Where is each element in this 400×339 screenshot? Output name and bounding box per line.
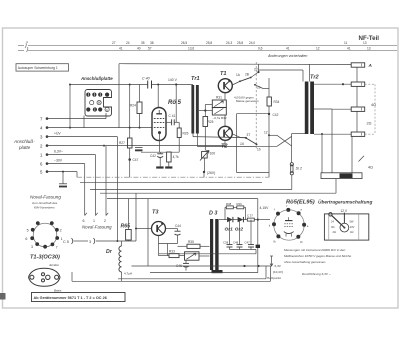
svg-text:Heizpunkt: Heizpunkt: [267, 276, 281, 280]
label box Autosuper: [16, 64, 69, 71]
wire top rail 1: [18, 44, 24, 46]
svg-text:C42: C42: [150, 154, 156, 158]
svg-text:Änderungen vorbehalten: Änderungen vorbehalten: [267, 54, 307, 58]
svg-text:38: 38: [150, 41, 154, 45]
svg-text:C 41: C 41: [169, 114, 176, 118]
svg-text:+ÜV: +ÜV: [54, 132, 61, 136]
svg-text:−30V: −30V: [54, 159, 63, 163]
wire tube cathode: [159, 141, 161, 153]
svg-text:3: 3: [31, 245, 33, 249]
svg-text:C38: C38: [223, 241, 229, 245]
svg-text:3T: 3T: [247, 133, 251, 137]
svg-text:R35: R35: [188, 240, 194, 244]
svg-text:T1-3(OC30): T1-3(OC30): [30, 255, 60, 261]
pin row bottom: [86, 107, 90, 111]
svg-text:12: 12: [316, 47, 320, 51]
svg-text:6: 6: [83, 219, 85, 223]
wire cap drops: [229, 220, 231, 245]
terminal box A: [351, 63, 365, 67]
svg-text:6,3V: 6,3V: [275, 264, 282, 268]
svg-text:C 5: C 5: [63, 240, 69, 244]
svg-text:2Ω: 2Ω: [333, 230, 336, 234]
svg-text:Rö 5: Rö 5: [168, 100, 182, 106]
capacitor C49: [256, 245, 260, 248]
wire top rail 2: [18, 50, 24, 52]
wire T3 collector loop: [158, 236, 160, 244]
svg-text:2B: 2B: [245, 72, 249, 76]
svg-text:2: 2: [60, 228, 62, 232]
wire x148: [147, 199, 149, 266]
svg-text:25,8: 25,8: [206, 41, 212, 45]
svg-text:12 V: 12 V: [341, 209, 348, 213]
svg-text:T1: T1: [220, 71, 227, 77]
svg-text:Anschlußplatte: Anschlußplatte: [80, 76, 113, 81]
svg-text:T3: T3: [152, 210, 159, 216]
wire t5: [47, 171, 77, 173]
node 26V: [203, 171, 205, 173]
wire drop t5 to C39: [62, 172, 64, 184]
wire T1 emitter to switch: [232, 82, 239, 86]
svg-text:26,5: 26,5: [181, 41, 187, 45]
svg-text:41: 41: [286, 47, 290, 51]
svg-text:4,15V: 4,15V: [260, 206, 270, 210]
svg-text:g₂: g₂: [300, 239, 303, 243]
svg-text:C47: C47: [245, 241, 251, 245]
node C42: [268, 113, 270, 115]
svg-text:(26V): (26V): [207, 171, 215, 175]
wire bus4: [100, 192, 336, 194]
trimmer R32: [212, 108, 226, 115]
svg-text:Anschluß-: Anschluß-: [13, 139, 35, 144]
svg-text:3Ω: 3Ω: [331, 225, 334, 229]
wire anode rail y84.5: [70, 84, 148, 86]
svg-text:platte: platte: [18, 145, 31, 150]
svg-text:Durchführung 6,3V ~: Durchführung 6,3V ~: [302, 272, 331, 276]
svg-text:27: 27: [112, 41, 116, 45]
wire box links: [356, 67, 358, 82]
wire cap bus: [230, 249, 257, 251]
note measurement text: [284, 248, 352, 264]
svg-text:D 3: D 3: [209, 211, 217, 217]
svg-text:4Ω: 4Ω: [371, 103, 376, 107]
svg-text:−0,7a: −0,7a: [213, 116, 221, 120]
connector plate outline: [85, 90, 112, 117]
heater arrow: [270, 256, 273, 266]
thermistor: [185, 252, 200, 260]
svg-text:Si 2: Si 2: [296, 167, 303, 171]
wire drop t6: [84, 164, 86, 216]
svg-text:140 V: 140 V: [168, 78, 178, 82]
svg-text:R31: R31: [216, 96, 222, 100]
svg-text:R34: R34: [274, 100, 280, 104]
svg-text:40: 40: [137, 47, 141, 51]
svg-text:10V: 10V: [350, 225, 355, 229]
svg-text:C44: C44: [175, 224, 181, 228]
capacitor C41: [171, 119, 173, 125]
svg-text:Tr2: Tr2: [310, 74, 319, 80]
inset switching diagram: [324, 214, 368, 240]
svg-text:R25: R25: [208, 120, 214, 124]
svg-text:R38: R38: [226, 202, 232, 206]
svg-text:1A: 1A: [240, 142, 244, 146]
svg-text:R27: R27: [119, 141, 125, 145]
wire bus1: [77, 176, 269, 178]
svg-text:35: 35: [141, 41, 145, 45]
rail B+ to A: [119, 63, 351, 66]
svg-text:Meßbereichen 10/50 V gegen Mas: Meßbereichen 10/50 V gegen Masse und Str…: [284, 254, 352, 258]
svg-text:0,6: 0,6: [258, 47, 263, 51]
svg-text:4,7μH: 4,7μH: [124, 271, 132, 275]
svg-text:Emitter: Emitter: [50, 263, 61, 267]
svg-text:24: 24: [126, 41, 130, 45]
svg-text:Dr: Dr: [106, 249, 113, 255]
svg-text:C 37: C 37: [247, 213, 253, 217]
wire bus5: [107, 198, 258, 200]
svg-text:6: 6: [25, 237, 27, 241]
speaker: [321, 173, 362, 179]
wire bus3: [90, 189, 292, 191]
terminal box 3: [351, 107, 365, 111]
wire rectifier loop: [219, 219, 227, 221]
svg-text:Autosuper Schwerinburg 1: Autosuper Schwerinburg 1: [18, 66, 58, 70]
capacitor C45: [135, 147, 143, 149]
rail 22 to Tr2: [259, 69, 304, 71]
svg-text:Gr2: Gr2: [235, 226, 244, 232]
wire t7: [47, 118, 106, 120]
wire x136: [135, 193, 137, 241]
terminal box 4: [351, 132, 365, 136]
svg-text:13: 13: [363, 41, 367, 45]
svg-text:6,3V~: 6,3V~: [54, 150, 63, 154]
svg-text:KW-Vorsetzers: KW-Vorsetzers: [34, 206, 55, 210]
wire drop x70: [69, 85, 71, 128]
svg-text:57: 57: [148, 47, 152, 51]
svg-text:100: 100: [210, 152, 216, 156]
svg-text:Gr1: Gr1: [225, 226, 234, 232]
dashed linkage: [255, 62, 257, 150]
wire heater run: [132, 265, 271, 267]
svg-text:41: 41: [347, 47, 351, 51]
mark page edge: [0, 293, 6, 300]
box section frame: [236, 114, 238, 173]
wire rectifier output: [257, 199, 259, 245]
wire crossing X: [268, 134, 270, 136]
wire t3: [47, 136, 117, 138]
svg-text:2: 2: [104, 219, 106, 223]
svg-text:R24: R24: [130, 104, 136, 108]
svg-text:Rö5(EL95): Rö5(EL95): [286, 200, 315, 206]
svg-text:24,3: 24,3: [226, 41, 232, 45]
svg-text:G: G: [106, 108, 108, 112]
wire low mid: [150, 272, 258, 274]
svg-text:24,0: 24,0: [249, 41, 255, 45]
wire drop t1: [95, 155, 97, 216]
diode Gr2: [233, 219, 238, 221]
svg-text:41: 41: [119, 47, 123, 51]
svg-text:7: 7: [56, 245, 58, 249]
svg-text:Noval-Fassung: Noval-Fassung: [82, 224, 112, 229]
svg-text:zum Anschluß des: zum Anschluß des: [31, 201, 58, 205]
svg-text:1b: 1b: [257, 147, 261, 151]
svg-text:Messungen mit Instrument 20000: Messungen mit Instrument 20000 Ω/V in de…: [284, 248, 346, 252]
svg-text:R32: R32: [221, 116, 227, 120]
tube socket noval: [33, 223, 57, 247]
svg-text:Tr1: Tr1: [191, 76, 200, 82]
resistor R26: [178, 122, 180, 128]
wire Tr2 sec taps: [314, 83, 351, 85]
label box Geraetenummer: [32, 293, 126, 302]
svg-text:12: 12: [264, 131, 268, 135]
svg-text:R33: R33: [169, 250, 175, 254]
terminal box 2: [351, 82, 365, 86]
node C47: [128, 158, 131, 161]
svg-text:C48: C48: [233, 241, 239, 245]
svg-text:NF-Teil: NF-Teil: [359, 35, 380, 42]
svg-text:5W: 5W: [350, 220, 354, 224]
wire t6: [47, 163, 85, 165]
svg-text:Übertragerumschaltung: Übertragerumschaltung: [318, 198, 372, 205]
diode Gr1: [227, 217, 233, 222]
wire t2: [47, 145, 225, 147]
wire T2 emitter: [232, 134, 240, 138]
tube socket EL95: [274, 210, 304, 240]
svg-text:Basis: Basis: [54, 289, 62, 293]
wire grid y120.5: [166, 121, 172, 123]
wire bus2: [80, 181, 262, 183]
resistor R34: [268, 78, 270, 97]
svg-text:Masse gemessen: Masse gemessen: [236, 99, 259, 103]
node break symbol: [25, 43, 28, 52]
svg-text:13: 13: [367, 47, 371, 51]
svg-text:4,7k: 4,7k: [173, 155, 179, 159]
svg-text:A: A: [368, 63, 372, 68]
wire bottom pair: [118, 278, 266, 280]
svg-text:g₁: g₁: [273, 239, 276, 243]
wire t4: [47, 127, 152, 129]
ground: [165, 166, 172, 168]
svg-text:Ab Gerätenummer 5671 T 1 - T: Ab Gerätenummer 5671 T 1 - T 2 = OC 26: [34, 296, 107, 300]
wire drop t2: [105, 146, 107, 216]
svg-text:2Ω: 2Ω: [367, 122, 372, 126]
capacitor C39: [59, 183, 67, 185]
svg-text:C42: C42: [273, 113, 279, 117]
svg-text:Noval-Fassung: Noval-Fassung: [30, 195, 61, 200]
pin tick 6: [85, 213, 87, 216]
wire t1: [47, 154, 96, 156]
svg-text:1: 1: [93, 219, 95, 223]
svg-text:R39: R39: [237, 202, 243, 206]
svg-text:13,6: 13,6: [188, 47, 194, 51]
fuse Si2: [290, 163, 293, 166]
svg-text:5: 5: [27, 228, 29, 232]
transistor T2: [218, 126, 232, 140]
svg-text:4Ω: 4Ω: [350, 230, 353, 234]
svg-text:R26: R26: [183, 132, 189, 136]
node voltage labels top: [112, 41, 371, 51]
svg-text:3: 3: [89, 240, 91, 244]
svg-text:C47: C47: [133, 158, 139, 162]
pin row top: [86, 93, 90, 97]
wire trimmer chain: [224, 93, 226, 100]
svg-text:[10,4V]: [10,4V]: [273, 270, 283, 274]
svg-text:ohne Ausschaltung gemessen.: ohne Ausschaltung gemessen.: [284, 260, 326, 264]
wire mid bus: [159, 253, 256, 255]
svg-text:C 40: C 40: [142, 76, 150, 80]
wire T3 base: [136, 228, 152, 230]
bracket dashed: [365, 84, 375, 134]
pin row middle: [90, 101, 94, 105]
ground: [156, 166, 163, 168]
svg-text:11: 11: [344, 41, 348, 45]
svg-text:4Ω: 4Ω: [368, 165, 373, 169]
svg-text:25,8: 25,8: [237, 41, 243, 45]
tube inner symbol: [284, 217, 294, 236]
